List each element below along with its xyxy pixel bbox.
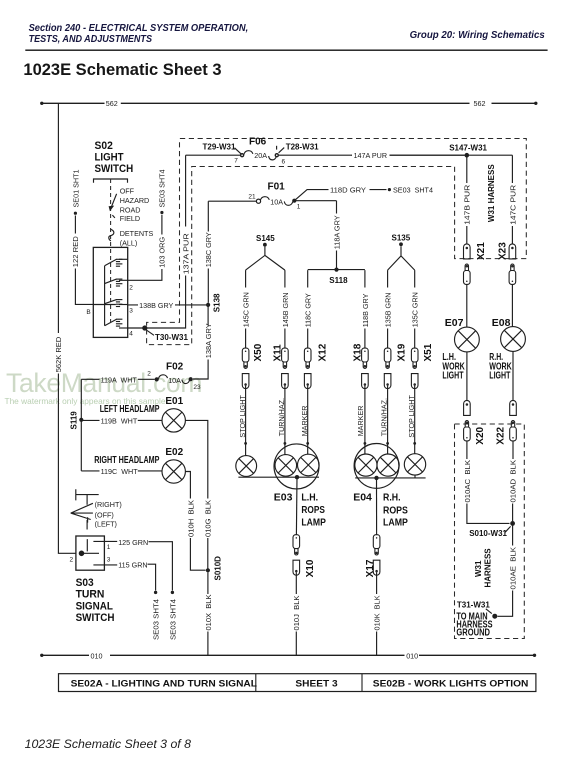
lamp E03 L.H. ROPS lamp: stop element <box>236 443 257 476</box>
svg-text:X11: X11 <box>273 344 284 362</box>
svg-text:L.H.: L.H. <box>301 491 318 503</box>
svg-text:SE03 SHT4: SE03 SHT4 <box>152 599 161 640</box>
svg-text:LAMP: LAMP <box>301 517 326 529</box>
S02 light switch label <box>95 140 134 175</box>
svg-text:T30-W31: T30-W31 <box>155 333 188 342</box>
svg-text:119C WHT: 119C WHT <box>101 467 139 476</box>
node S010D <box>206 556 223 581</box>
E04 labels <box>353 492 408 529</box>
wire 135B GRN <box>384 270 393 348</box>
bus 010 (ground rail) <box>40 651 536 660</box>
terminal T29-W31 <box>203 142 242 154</box>
wire 115 GRN <box>104 561 160 640</box>
wire below connector <box>284 386 287 445</box>
svg-text:7: 7 <box>234 158 238 165</box>
svg-text:RIGHT HEADLAMP: RIGHT HEADLAMP <box>94 455 160 466</box>
wire 010G BLK (E01 ground) <box>185 420 212 570</box>
fuse F02 10A <box>147 362 201 392</box>
svg-text:119A WHT: 119A WHT <box>101 375 138 384</box>
connector (118C GRY to lamp) <box>304 348 311 389</box>
svg-text:FIELD: FIELD <box>120 214 140 223</box>
svg-text:X18: X18 <box>352 343 363 361</box>
svg-text:20A: 20A <box>254 151 267 160</box>
svg-text:10A: 10A <box>168 376 181 385</box>
wire below connector <box>364 386 367 445</box>
svg-text:SE03 SHT4: SE03 SHT4 <box>158 169 167 207</box>
lamp position label STOP LIGHT <box>407 395 416 438</box>
svg-text:010H BLK: 010H BLK <box>186 500 195 537</box>
connector X10 <box>293 535 300 576</box>
node S010-W31 <box>469 521 515 538</box>
svg-text:E02: E02 <box>165 447 183 458</box>
svg-text:SE01 SHT1: SE01 SHT1 <box>71 169 80 207</box>
wire 138B GRY (S02 pin3 to S138) <box>128 301 208 310</box>
svg-text:X22: X22 <box>496 426 507 444</box>
off-page ref SE03 SHT4 / wire 103 ORG <box>128 169 167 280</box>
svg-text:LIGHT: LIGHT <box>442 370 463 381</box>
header right: group title <box>410 30 546 41</box>
svg-text:125 GRN: 125 GRN <box>118 538 148 547</box>
svg-text:(OFF): (OFF) <box>95 510 114 519</box>
wire 118B GRY <box>361 270 370 348</box>
svg-text:103 ORG: 103 ORG <box>158 236 167 267</box>
svg-text:TESTS, AND ADJUSTMENTS: TESTS, AND ADJUSTMENTS <box>29 34 153 45</box>
svg-text:SE02A - LIGHTING AND TURN SIGN: SE02A - LIGHTING AND TURN SIGNAL <box>71 678 258 688</box>
svg-text:010AE BLK: 010AE BLK <box>509 547 518 590</box>
wire 145B GRN <box>281 270 290 348</box>
connector (145C GRN to lamp) <box>242 348 249 389</box>
svg-text:T31-W31: T31-W31 <box>457 601 490 610</box>
wire 010J BLK <box>292 572 301 655</box>
svg-text:OFF: OFF <box>120 186 135 195</box>
svg-text:2: 2 <box>70 556 74 563</box>
lamp position label MARKER <box>300 406 309 437</box>
svg-text:S145: S145 <box>256 234 275 243</box>
svg-text:HAZARD: HAZARD <box>120 196 150 205</box>
connector label X11 <box>273 344 284 362</box>
svg-text:122 RED: 122 RED <box>71 236 80 267</box>
svg-text:MARKER: MARKER <box>356 406 365 437</box>
lamp E02 right headlamp <box>162 460 185 483</box>
wire 147C PUR <box>508 155 517 244</box>
lamp position label MARKER <box>356 406 365 437</box>
svg-text:(RIGHT): (RIGHT) <box>95 500 122 509</box>
svg-text:SIGNAL: SIGNAL <box>76 600 114 612</box>
svg-text:118D GRY: 118D GRY <box>330 186 366 195</box>
connector label X50 <box>253 343 264 361</box>
svg-text:S147-W31: S147-W31 <box>449 143 487 152</box>
connector (145B GRN to lamp) <box>282 348 289 389</box>
terminal T31-W31 to main harness ground <box>456 601 497 639</box>
svg-text:T28-W31: T28-W31 <box>286 142 319 151</box>
svg-text:1023E Schematic Sheet 3 of 8: 1023E Schematic Sheet 3 of 8 <box>25 737 192 751</box>
connector (118B GRY to lamp) <box>362 348 369 389</box>
svg-text:S135: S135 <box>392 234 411 243</box>
lamp E07 L.H. work light <box>442 284 479 400</box>
svg-text:LIGHT: LIGHT <box>95 151 124 163</box>
svg-text:(ALL): (ALL) <box>120 238 138 247</box>
node S138 <box>206 293 222 312</box>
wire 010K BLK <box>373 572 382 655</box>
S03 switch body box <box>76 536 105 570</box>
svg-text:1: 1 <box>107 544 111 551</box>
wire below connector <box>413 386 416 445</box>
svg-text:W31 HARNESS: W31 HARNESS <box>487 164 496 222</box>
svg-text:ROPS: ROPS <box>383 505 408 517</box>
svg-text:E04: E04 <box>353 492 372 504</box>
svg-text:SE02B - WORK LIGHTS OPTION: SE02B - WORK LIGHTS OPTION <box>373 678 529 688</box>
svg-text:SHEET 3: SHEET 3 <box>295 678 337 688</box>
S02 pin numbers <box>129 284 133 337</box>
svg-text:E03: E03 <box>274 491 293 503</box>
svg-text:LIGHT: LIGHT <box>489 370 510 381</box>
wire 010AD BLK <box>509 441 518 522</box>
svg-text:X17: X17 <box>365 559 376 577</box>
svg-text:X50: X50 <box>253 343 264 361</box>
svg-text:S010-W31: S010-W31 <box>469 529 507 538</box>
wire 562K RED (left vertical from bus to S03) <box>54 103 76 553</box>
connector (135B GRN to lamp) <box>384 348 391 389</box>
svg-text:135B GRN: 135B GRN <box>384 293 393 328</box>
wire below connector <box>244 386 247 445</box>
svg-text:LEFT HEADLAMP: LEFT HEADLAMP <box>100 404 160 415</box>
lamp E01 left headlamp <box>162 409 185 432</box>
wire 119B WHT <box>81 416 162 425</box>
node S118 <box>308 268 365 286</box>
svg-text:SWITCH: SWITCH <box>76 612 115 624</box>
svg-text:138A GRY: 138A GRY <box>204 323 213 358</box>
svg-text:118C GRY: 118C GRY <box>304 293 313 327</box>
svg-text:S119: S119 <box>69 411 78 430</box>
svg-text:562: 562 <box>106 99 118 108</box>
wire 125 GRN <box>104 538 177 640</box>
connector label X51 <box>423 343 434 361</box>
svg-text:137A PUR: 137A PUR <box>182 233 191 274</box>
wire 147A PUR <box>352 151 465 160</box>
header left: section title <box>29 23 249 45</box>
svg-text:138B GRY: 138B GRY <box>139 301 173 310</box>
svg-text:3: 3 <box>129 308 133 315</box>
svg-text:T29-W31: T29-W31 <box>203 142 236 151</box>
svg-text:4: 4 <box>129 331 133 338</box>
wire 138A GRY (S138 down to F02) <box>193 305 213 379</box>
svg-text:562: 562 <box>474 99 486 108</box>
watermark TakeManual.com <box>5 368 203 406</box>
svg-text:010J BLK: 010J BLK <box>292 595 301 630</box>
header rule <box>25 49 547 51</box>
svg-text:X12: X12 <box>318 343 329 361</box>
S02 internal contacts <box>93 259 127 328</box>
svg-text:F02: F02 <box>166 362 184 373</box>
svg-text:F06: F06 <box>249 137 267 148</box>
node S135 splice <box>388 234 415 270</box>
S03 labels <box>76 577 115 624</box>
svg-text:E07: E07 <box>445 317 464 329</box>
svg-text:23: 23 <box>193 384 201 391</box>
svg-text:118B GRY: 118B GRY <box>361 293 370 327</box>
svg-text:X51: X51 <box>423 343 434 361</box>
svg-text:HARNESS: HARNESS <box>483 548 492 588</box>
svg-text:S03: S03 <box>76 577 94 589</box>
page title <box>23 61 221 79</box>
svg-text:R.H.: R.H. <box>383 492 401 504</box>
node S119 vertical <box>69 379 83 471</box>
wire 010AE BLK <box>498 523 518 616</box>
svg-text:B: B <box>86 309 90 316</box>
fuse F01 10A <box>208 182 336 211</box>
wire 147B PUR <box>463 155 472 244</box>
svg-text:147A PUR: 147A PUR <box>354 151 388 160</box>
node S145 splice <box>246 234 285 270</box>
wire 010H BLK (E02 ground) <box>185 472 205 571</box>
svg-text:010AD BLK: 010AD BLK <box>509 460 518 503</box>
svg-text:DETENTS: DETENTS <box>120 229 154 238</box>
svg-text:010: 010 <box>406 651 418 660</box>
svg-text:E08: E08 <box>492 317 511 329</box>
svg-text:119B WHT: 119B WHT <box>101 416 138 425</box>
svg-text:145B GRN: 145B GRN <box>281 293 290 328</box>
footer page caption <box>25 737 192 751</box>
svg-text:010: 010 <box>91 651 103 660</box>
svg-text:2: 2 <box>147 371 151 378</box>
svg-text:F01: F01 <box>268 182 286 193</box>
svg-text:(LEFT): (LEFT) <box>95 519 117 528</box>
lamp E04 stop element <box>404 443 425 478</box>
lamp position label TURN/HAZ. <box>277 398 286 436</box>
connector label X12 <box>318 343 329 361</box>
svg-text:S02: S02 <box>95 140 113 152</box>
svg-text:1023E Schematic Sheet 3: 1023E Schematic Sheet 3 <box>23 61 221 79</box>
svg-text:138C GRY: 138C GRY <box>204 232 213 267</box>
node S147-W31 <box>449 143 512 157</box>
wire below connector <box>306 386 309 445</box>
svg-text:SE03 SHT4: SE03 SHT4 <box>393 186 433 195</box>
wire 145C GRN <box>242 270 251 348</box>
svg-text:010AC BLK: 010AC BLK <box>463 460 472 503</box>
fuse F06 20A <box>186 137 465 166</box>
E03 common return + junction <box>238 475 319 535</box>
svg-text:2: 2 <box>129 284 133 291</box>
svg-text:010X BLK: 010X BLK <box>204 594 213 630</box>
svg-text:TURN: TURN <box>76 589 105 601</box>
connector X21 <box>464 244 471 285</box>
lamp E04 R.H. ROPS lamp: main bulbs <box>354 443 399 488</box>
svg-text:X19: X19 <box>397 343 408 361</box>
lamp E03 main bulbs <box>274 443 319 489</box>
S02 wiper arrow <box>109 194 117 218</box>
svg-text:115 GRN: 115 GRN <box>118 561 147 570</box>
svg-text:3: 3 <box>107 556 111 563</box>
lamp E08 R.H. work light <box>489 284 525 400</box>
wire 118A GRY (F01 pin1 down to S118) <box>332 201 341 270</box>
svg-text:Section 240 - ELECTRICAL SYSTE: Section 240 - ELECTRICAL SYSTEM OPERATIO… <box>29 23 249 34</box>
S03 pin numbers <box>70 544 111 564</box>
svg-text:SE03 SHT4: SE03 SHT4 <box>168 599 177 640</box>
harness W31 dashed outline (top) <box>147 139 527 345</box>
svg-text:118A GRY: 118A GRY <box>332 215 341 249</box>
svg-text:147B PUR: 147B PUR <box>463 185 472 225</box>
svg-text:562K RED: 562K RED <box>54 337 63 373</box>
svg-text:E01: E01 <box>165 396 183 407</box>
wire 138C GRY (F01 pin21 down to S138) <box>204 201 213 303</box>
S02 switch body box <box>93 247 127 337</box>
svg-text:GROUND: GROUND <box>456 627 490 638</box>
connector label X18 <box>352 343 363 361</box>
svg-text:LAMP: LAMP <box>383 517 408 529</box>
wire 118C GRY <box>304 270 313 348</box>
svg-text:X20: X20 <box>475 426 486 444</box>
svg-text:010G BLK: 010G BLK <box>204 500 213 537</box>
svg-text:S138: S138 <box>213 293 222 312</box>
connector (135C GRN to lamp) <box>411 348 418 389</box>
wire 119A WHT <box>81 375 154 384</box>
wire 118D GRY to SE03 SHT4 <box>294 186 433 201</box>
svg-text:S118: S118 <box>329 276 348 285</box>
wire 135C GRN <box>411 270 420 348</box>
S03 toggle symbol <box>71 489 99 529</box>
svg-text:W31: W31 <box>474 560 483 577</box>
harness W31 dashed outline (lower) <box>455 424 525 639</box>
svg-text:10A: 10A <box>270 198 283 207</box>
svg-text:147C PUR: 147C PUR <box>508 185 517 225</box>
wire 010AC BLK <box>463 441 510 524</box>
connector X20 <box>464 400 471 441</box>
S03 position labels <box>95 500 122 528</box>
svg-text:6: 6 <box>282 158 286 165</box>
lamp position label TURN/HAZ. <box>380 398 389 436</box>
S02 actuator dashed line <box>110 179 112 322</box>
svg-text:1: 1 <box>297 203 301 210</box>
off-page ref SE01 SHT1 / wire 122 RED <box>71 169 93 316</box>
S02 top bracket <box>94 179 128 183</box>
svg-text:SWITCH: SWITCH <box>95 163 134 175</box>
terminal T30-W31 <box>142 325 188 341</box>
svg-text:X23: X23 <box>497 242 508 260</box>
wire below connector <box>386 386 389 445</box>
svg-text:X10: X10 <box>305 559 316 577</box>
E04 common return + junction <box>355 476 425 535</box>
terminal T28-W31 <box>277 142 320 153</box>
connector X17 <box>373 535 380 576</box>
S02 position labels <box>120 186 154 247</box>
connector X22 <box>510 400 517 441</box>
S02 detent spring squiggle <box>109 229 114 241</box>
S03 internals <box>79 539 104 565</box>
wire 137A PUR (F06 feed from S02 pin4) <box>128 155 191 328</box>
svg-text:S010D: S010D <box>213 556 222 581</box>
svg-text:010K BLK: 010K BLK <box>373 595 382 630</box>
bus 562 (top power rail) <box>40 99 537 108</box>
footer reference bar <box>59 674 536 692</box>
wire 010X BLK <box>204 572 213 655</box>
svg-text:135C GRN: 135C GRN <box>411 292 420 327</box>
svg-text:21: 21 <box>248 194 256 201</box>
connector label X19 <box>397 343 408 361</box>
lamp position label STOP LIGHT <box>238 395 247 438</box>
harness label W31 HARNESS (lower) <box>474 548 493 588</box>
svg-text:Group 20: Wiring Schematics: Group 20: Wiring Schematics <box>410 30 546 41</box>
svg-text:145C GRN: 145C GRN <box>242 292 251 327</box>
svg-text:ROPS: ROPS <box>301 504 325 516</box>
wire 119C WHT <box>81 467 162 476</box>
harness label W31 HARNESS (upper) <box>487 164 496 222</box>
E03 labels <box>274 491 326 528</box>
connector X23 <box>509 244 516 285</box>
svg-text:X21: X21 <box>476 242 487 260</box>
